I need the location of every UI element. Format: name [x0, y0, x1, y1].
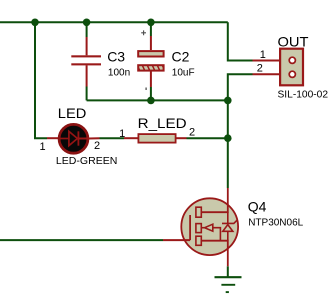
- svg-text:1: 1: [260, 49, 266, 61]
- pin: source internal link: [201, 241, 228, 267]
- LED (LED-GREEN): [47, 124, 100, 153]
- svg-text:10uF: 10uF: [172, 67, 195, 78]
- connector OUT (SIL-100-02): [280, 49, 303, 86]
- svg-text:Q4: Q4: [248, 199, 267, 215]
- svg-text:NTP30N06L: NTP30N06L: [248, 217, 303, 228]
- channel rect top: [196, 207, 201, 217]
- wire: C2 bottom connection: [150, 87, 152, 100]
- wire: C3 bottom connection: [86, 87, 88, 101]
- svg-text:LED-GREEN: LED-GREEN: [56, 156, 118, 167]
- substrate arrow: [201, 227, 204, 229]
- channel rect bottom: [196, 236, 201, 245]
- svg-text:R_LED: R_LED: [138, 115, 187, 131]
- wire: source to ground: [227, 266, 229, 277]
- svg-text:C3: C3: [107, 48, 125, 64]
- node: junction top rail / LED branch: [31, 19, 39, 27]
- svg-text:C2: C2: [172, 48, 190, 64]
- resistor R_LED: [124, 134, 187, 143]
- wire: C2 top connection: [150, 22, 152, 36]
- gate electrode bar: [189, 215, 191, 240]
- channel rect middle: [196, 224, 201, 233]
- wire: left vertical to LED anode: [35, 22, 47, 138]
- node: junction bottom rail / C2: [147, 97, 155, 105]
- node: junction top rail / C3: [83, 19, 91, 27]
- wire: top rail bend down to OUT pin 1: [228, 22, 253, 60]
- svg-text:2: 2: [257, 63, 263, 75]
- svg-text:LED: LED: [58, 105, 87, 121]
- polarity minus sign: [145, 88, 147, 91]
- wire: bottom rail (C3/C2 ground side to drain net): [87, 99, 228, 101]
- svg-text:OUT: OUT: [278, 34, 309, 50]
- capacitor C3: [71, 37, 101, 87]
- wire: LED cathode to R_LED: [100, 137, 125, 139]
- wire: C3 top connection: [86, 22, 88, 37]
- transistor Q4 (NTP30N06L N-MOSFET): [163, 188, 238, 266]
- svg-text:1: 1: [40, 141, 46, 153]
- wire: gate wire from left: [0, 239, 163, 241]
- node: junction bottom rail / drain net: [224, 97, 232, 105]
- wire: OUT pin 2 to drain net: [228, 74, 253, 188]
- wire: R_LED to drain net: [187, 137, 228, 139]
- svg-text:SIL-100-02: SIL-100-02: [278, 90, 329, 101]
- svg-text:2: 2: [94, 140, 100, 152]
- pin: gate stub: [163, 239, 190, 241]
- body diode (zener style): [227, 212, 229, 223]
- wire: top supply rail: [0, 21, 228, 23]
- pin: drain internal link: [201, 188, 228, 212]
- node: junction R_LED / drain net: [224, 134, 232, 142]
- ground: [215, 277, 242, 292]
- svg-text:2: 2: [189, 126, 195, 138]
- svg-text:100n: 100n: [108, 67, 130, 78]
- pin: OUT pin 2 stub: [253, 73, 291, 75]
- polarity plus sign: [141, 30, 146, 35]
- capacitor C2 (electrolytic): [138, 36, 163, 87]
- svg-text:1: 1: [119, 128, 125, 140]
- node: junction top rail / C2: [147, 19, 155, 27]
- pin: OUT pin 1 stub: [253, 60, 291, 62]
